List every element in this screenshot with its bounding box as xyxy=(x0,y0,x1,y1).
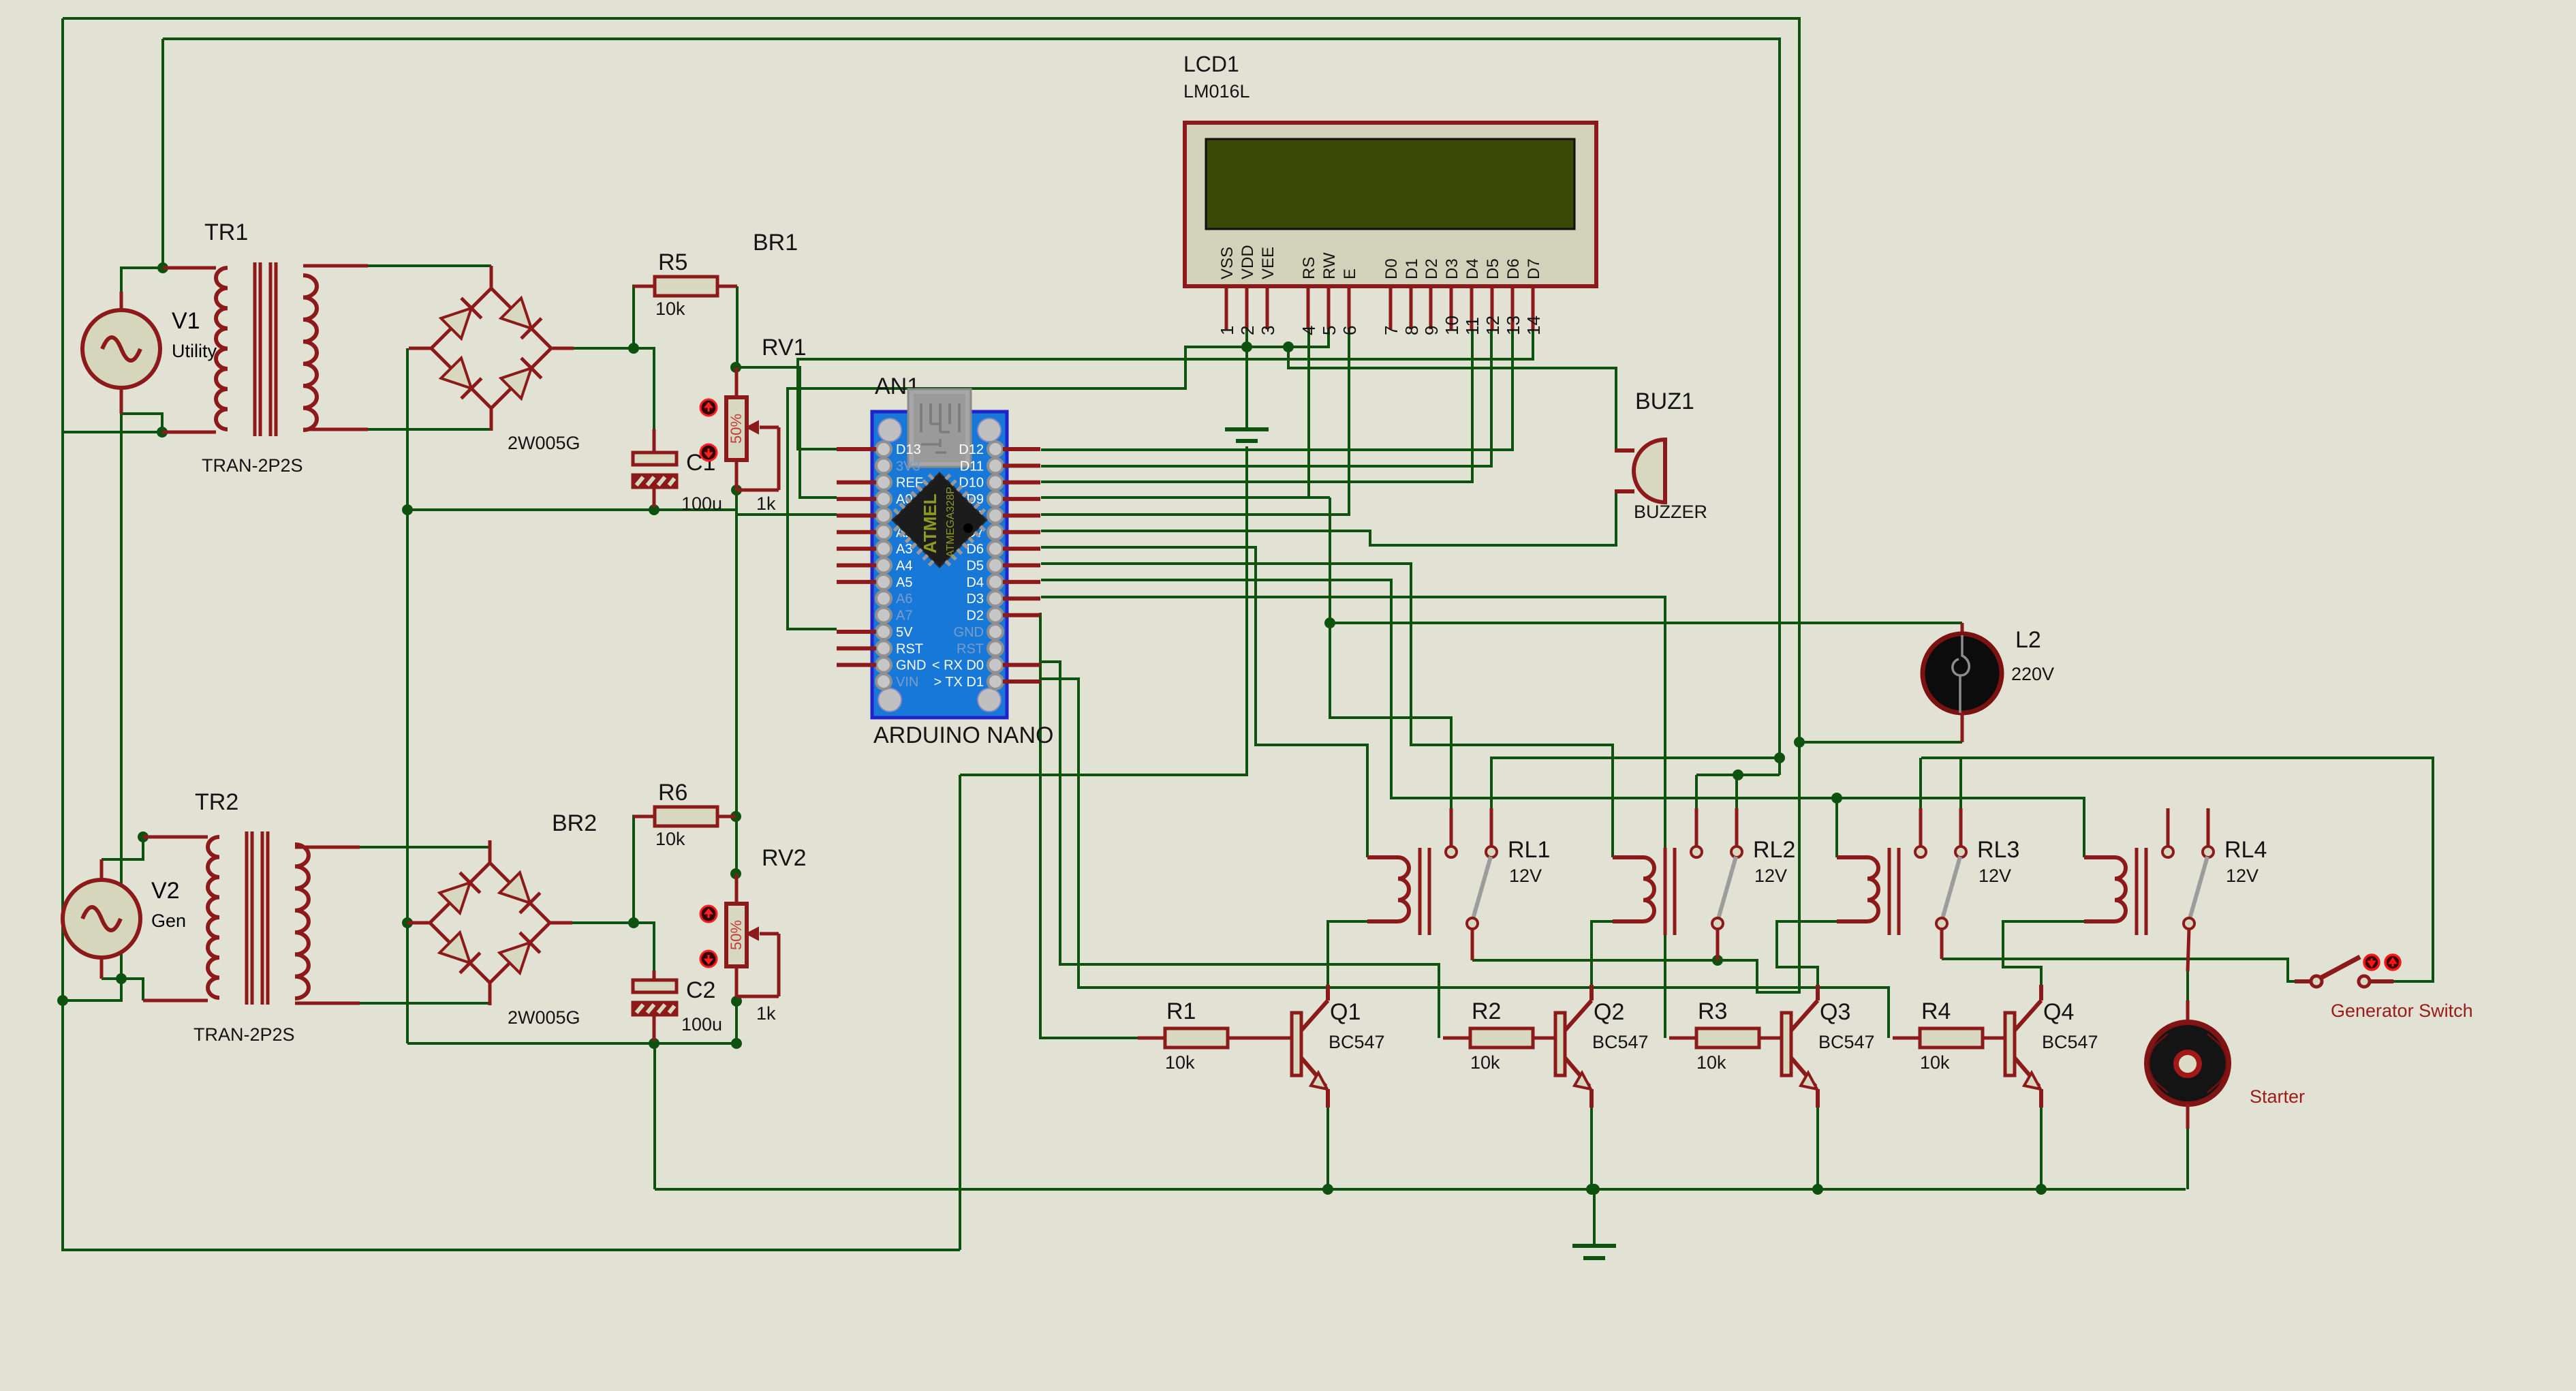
wire D4 to RL3 RL4 coils xyxy=(1041,580,2084,857)
bridge rectifier BR2 xyxy=(407,840,572,1005)
svg-text:10k: 10k xyxy=(1165,1052,1195,1073)
LCD pin 12 D5 xyxy=(1483,258,1503,335)
svg-text:E: E xyxy=(1341,269,1359,279)
pin wire xyxy=(1983,1037,2005,1040)
resistor R6 xyxy=(655,807,717,826)
svg-text:TRAN-2P2S: TRAN-2P2S xyxy=(202,455,303,476)
wire xyxy=(121,268,163,292)
wire lcd pin11 to D10 xyxy=(1041,329,1472,482)
svg-text:Starter: Starter xyxy=(2250,1086,2305,1107)
node emitter Q3 xyxy=(1812,1184,1823,1195)
svg-text:V1: V1 xyxy=(172,308,200,334)
wire xyxy=(1835,798,1838,857)
node I xyxy=(730,362,741,373)
wire xyxy=(1919,758,1922,808)
node Z xyxy=(1589,1184,1600,1195)
svg-text:D10: D10 xyxy=(959,476,984,491)
potentiometer RV1 xyxy=(700,367,779,490)
svg-text:BC547: BC547 xyxy=(1329,1032,1385,1052)
wire RL1 fixed xyxy=(1491,758,1780,808)
pin wire xyxy=(653,1015,656,1041)
wire xyxy=(736,490,837,515)
svg-text:1k: 1k xyxy=(756,493,776,514)
svg-text:D6: D6 xyxy=(966,542,984,557)
wire collector Q4 xyxy=(2003,921,2084,985)
svg-text:5: 5 xyxy=(1319,326,1339,335)
pin wire xyxy=(653,429,656,453)
wire vdd net xyxy=(788,329,1329,629)
transistor Q2 xyxy=(1555,985,1592,1107)
relay RL1 contacts xyxy=(1446,808,1497,929)
svg-text:A6: A6 xyxy=(896,592,912,607)
capacitor C1 xyxy=(633,453,677,487)
LCD pin 3 VEE xyxy=(1258,247,1278,335)
svg-text:D12: D12 xyxy=(959,442,984,457)
wire xyxy=(360,1002,490,1005)
svg-text:V2: V2 xyxy=(151,878,180,904)
svg-text:BUZZER: BUZZER xyxy=(1634,502,1707,522)
bus ground top xyxy=(407,508,736,511)
svg-text:1: 1 xyxy=(1217,326,1237,335)
svg-text:100u: 100u xyxy=(681,493,722,514)
AC source V2 wiring xyxy=(100,859,104,880)
relay RL2 contacts xyxy=(1691,808,1742,929)
wire xyxy=(163,39,1780,775)
svg-text:RL1: RL1 xyxy=(1508,837,1550,863)
lamp L2 xyxy=(1923,623,2002,742)
pin wire xyxy=(162,431,216,434)
pin wire xyxy=(1716,929,1720,960)
svg-text:Q3: Q3 xyxy=(1820,999,1850,1025)
resistor R1 xyxy=(1165,1028,1228,1048)
wire xyxy=(63,979,121,1000)
node U xyxy=(1324,617,1335,628)
pin wire xyxy=(717,285,737,288)
wire xyxy=(632,816,635,923)
svg-text:1k: 1k xyxy=(756,1003,776,1024)
wire D6 to RL1 coil xyxy=(1041,547,1367,857)
node B xyxy=(157,427,168,438)
wire lcd pin12 to D11 xyxy=(1041,329,1491,466)
wire xyxy=(653,1043,656,1189)
pin wire xyxy=(1940,929,1944,959)
node R xyxy=(1241,341,1252,352)
wire emitter xyxy=(1590,1107,1593,1189)
pin wire xyxy=(295,846,360,849)
AC source V1 xyxy=(82,292,217,406)
svg-text:RS: RS xyxy=(1300,257,1318,279)
wire xyxy=(736,286,739,367)
wire RX to R2 xyxy=(1041,662,1439,1038)
svg-text:D11: D11 xyxy=(960,459,984,474)
svg-text:RV1: RV1 xyxy=(762,335,807,361)
pin wire xyxy=(2188,929,2189,971)
node Q xyxy=(731,1038,742,1049)
svg-text:6: 6 xyxy=(1339,326,1360,335)
wire lcd pin13 to D12 xyxy=(1041,329,1512,450)
LCD pin 13 D6 xyxy=(1503,258,1523,335)
node emitter Q4 xyxy=(2036,1184,2047,1195)
svg-text:12V: 12V xyxy=(1754,866,1787,886)
pin wire xyxy=(143,999,208,1003)
svg-text:12: 12 xyxy=(1483,316,1503,335)
svg-text:Gen: Gen xyxy=(151,911,186,931)
wire xyxy=(121,414,162,432)
LCD pin 14 D7 xyxy=(1523,258,1544,335)
svg-text:C2: C2 xyxy=(686,977,715,1003)
pin wire xyxy=(2186,1104,2190,1129)
wire emitter xyxy=(1326,1107,1329,1189)
wire xyxy=(63,18,960,1250)
capacitor C2 xyxy=(633,980,677,1015)
wire xyxy=(736,367,837,498)
node emitter Q2 xyxy=(1586,1184,1597,1195)
svg-text:3: 3 xyxy=(1258,326,1278,335)
relay RL3 coil xyxy=(1837,848,1899,935)
svg-text:13: 13 xyxy=(1503,316,1523,335)
node H xyxy=(628,343,639,354)
svg-text:A5: A5 xyxy=(896,575,912,590)
svg-text:9: 9 xyxy=(1421,326,1442,335)
node M xyxy=(730,868,741,879)
pin wire xyxy=(653,487,656,507)
svg-text:Q2: Q2 xyxy=(1594,999,1624,1025)
wire lamp bottom xyxy=(1799,741,1962,744)
svg-text:50%: 50% xyxy=(728,414,745,444)
wire xyxy=(632,815,634,818)
svg-text:BR2: BR2 xyxy=(552,810,597,836)
resistor R5 xyxy=(655,277,717,296)
LCD pin 1 VSS xyxy=(1217,247,1237,335)
svg-text:D5: D5 xyxy=(966,559,984,574)
pin wire xyxy=(1759,1037,1782,1040)
node O xyxy=(649,1038,659,1049)
svg-text:ATMEL: ATMEL xyxy=(920,493,940,553)
LCD pin 11 D4 xyxy=(1462,258,1483,335)
node D xyxy=(57,995,68,1006)
svg-text:10k: 10k xyxy=(1470,1052,1500,1073)
transistor Q1 xyxy=(1292,985,1328,1107)
LCD pin 6 E xyxy=(1339,269,1360,335)
svg-text:RW: RW xyxy=(1320,252,1339,279)
node Y xyxy=(1712,955,1723,966)
pin wire xyxy=(717,815,736,819)
pin wire xyxy=(303,428,368,431)
wire xyxy=(368,428,491,431)
wire RL3 pole to switch xyxy=(1921,758,2433,981)
svg-text:10k: 10k xyxy=(655,829,685,849)
svg-text:10k: 10k xyxy=(1920,1052,1950,1073)
node emitter Q1 xyxy=(1322,1184,1333,1195)
Arduino pins xyxy=(837,442,1040,690)
wire lamp top xyxy=(1330,622,1962,624)
wire xyxy=(1735,775,1738,808)
svg-text:TRAN-2P2S: TRAN-2P2S xyxy=(193,1024,295,1045)
wire xyxy=(121,979,143,1000)
svg-text:R2: R2 xyxy=(1472,998,1501,1024)
transistor Q4 xyxy=(2005,985,2041,1107)
LCD pin 7 D0 xyxy=(1381,258,1401,335)
node E xyxy=(138,831,149,842)
pin wire xyxy=(1443,1037,1470,1040)
svg-text:RL4: RL4 xyxy=(2224,837,2267,863)
LCD LCD1 body xyxy=(1185,123,1596,286)
wire lcd pin6 to D8 xyxy=(1041,329,1349,515)
resistor R2 xyxy=(1470,1028,1533,1048)
wire xyxy=(634,348,654,429)
pin wire xyxy=(1533,1037,1555,1040)
wire xyxy=(1959,758,1962,808)
svg-text:A3: A3 xyxy=(896,542,912,557)
svg-text:RL2: RL2 xyxy=(1753,837,1795,863)
wire xyxy=(120,414,123,979)
svg-text:VEE: VEE xyxy=(1259,247,1277,279)
AC source V2 xyxy=(63,861,186,976)
wire RL3 bottom to switch xyxy=(1942,959,2310,981)
svg-text:R6: R6 xyxy=(658,780,687,806)
wire xyxy=(63,431,162,433)
svg-text:A4: A4 xyxy=(896,559,912,574)
Arduino USB connector xyxy=(908,389,971,467)
transformer TR1 xyxy=(216,262,317,436)
pin wire xyxy=(143,836,208,839)
node J xyxy=(649,504,659,515)
node P xyxy=(731,996,742,1007)
svg-text:GND: GND xyxy=(954,625,984,640)
wire xyxy=(632,285,634,288)
svg-text:D3: D3 xyxy=(966,592,984,607)
wire xyxy=(960,446,1247,775)
pin wire xyxy=(295,1002,360,1005)
generator switch xyxy=(2288,955,2400,987)
potentiometer RV2 xyxy=(700,874,779,996)
wire xyxy=(634,923,654,970)
svg-text:< RX D0: < RX D0 xyxy=(932,658,984,673)
svg-text:> TX D1: > TX D1 xyxy=(933,675,984,690)
wire collector Q3 xyxy=(1777,921,1837,985)
LCD pin 9 D2 xyxy=(1421,258,1442,335)
resistor R3 xyxy=(1696,1028,1759,1048)
svg-text:10k: 10k xyxy=(655,299,685,319)
bridge rectifier BR1 xyxy=(409,266,574,431)
svg-text:3V3: 3V3 xyxy=(896,459,920,474)
ground bottom center xyxy=(1572,1189,1616,1258)
wire ground rail xyxy=(655,1188,2186,1191)
wire xyxy=(735,490,738,874)
svg-text:GND: GND xyxy=(896,658,926,673)
pin wire xyxy=(632,285,655,288)
wire collector Q2 xyxy=(1592,921,1613,985)
wire TX to R4 xyxy=(1041,679,1889,1038)
AC source V1 wiring xyxy=(120,292,123,310)
starter motor xyxy=(2147,1022,2229,1104)
resistor R4 xyxy=(1920,1028,1983,1048)
svg-text:VSS: VSS xyxy=(1218,247,1237,279)
svg-text:10: 10 xyxy=(1442,316,1462,335)
wire xyxy=(959,775,961,1250)
node C xyxy=(116,973,127,984)
svg-text:BR1: BR1 xyxy=(753,230,798,256)
svg-text:11: 11 xyxy=(1462,317,1483,335)
svg-text:D4: D4 xyxy=(966,575,984,590)
relay RL3 contacts xyxy=(1915,808,1966,929)
svg-text:TR1: TR1 xyxy=(204,219,248,245)
svg-text:2W005G: 2W005G xyxy=(508,1007,580,1028)
svg-text:TR2: TR2 xyxy=(195,789,238,815)
Arduino mount holes xyxy=(878,418,1001,712)
svg-text:ATMEGA328P: ATMEGA328P xyxy=(945,487,957,557)
node A xyxy=(157,262,168,273)
wire lcd pin4 to D9 xyxy=(1041,329,1309,498)
wire collector Q1 xyxy=(1328,921,1367,985)
svg-text:D3: D3 xyxy=(1443,258,1461,279)
svg-text:7: 7 xyxy=(1381,326,1401,335)
svg-text:50%: 50% xyxy=(728,920,745,950)
svg-text:D1: D1 xyxy=(1403,258,1421,279)
pin wire xyxy=(632,815,655,819)
pin wire xyxy=(1471,929,1474,960)
svg-text:D5: D5 xyxy=(1484,258,1502,279)
svg-text:BC547: BC547 xyxy=(2042,1032,2098,1052)
svg-text:RV2: RV2 xyxy=(762,845,807,871)
wire xyxy=(1245,329,1248,429)
node T xyxy=(1831,793,1842,804)
wire RL2 contacts xyxy=(1696,774,1780,776)
wire D2 to R1 xyxy=(1040,613,1143,1038)
svg-text:D0: D0 xyxy=(1382,258,1401,279)
buzzer BUZ1 xyxy=(1615,440,1665,502)
pin wire xyxy=(163,266,216,270)
LCD pin 5 RW xyxy=(1319,252,1339,335)
pin wire xyxy=(2186,1000,2190,1022)
wire xyxy=(572,921,634,924)
wire D7 to buzzer xyxy=(1041,491,1616,545)
svg-text:R1: R1 xyxy=(1166,998,1196,1024)
wire xyxy=(161,39,164,268)
LCD pin 8 D1 xyxy=(1401,258,1422,335)
svg-text:RST: RST xyxy=(896,641,923,656)
svg-text:D6: D6 xyxy=(1504,258,1523,279)
wire emitter xyxy=(1816,1107,1819,1189)
svg-text:12V: 12V xyxy=(1509,866,1542,886)
svg-text:Generator Switch: Generator Switch xyxy=(2331,1000,2473,1021)
svg-text:220V: 220V xyxy=(2011,664,2054,684)
svg-text:8: 8 xyxy=(1401,326,1422,335)
node N xyxy=(628,917,639,928)
pin wire xyxy=(653,970,656,980)
bus ground bottom xyxy=(407,1042,736,1045)
wire xyxy=(360,846,490,849)
wire xyxy=(406,348,409,1043)
transistor Q3 xyxy=(1782,985,1818,1107)
svg-text:2: 2 xyxy=(1237,326,1258,335)
node F xyxy=(402,504,413,515)
node S xyxy=(1283,341,1294,352)
wire xyxy=(120,388,123,414)
svg-text:Q1: Q1 xyxy=(1330,999,1361,1025)
Arduino ATmega328P chip xyxy=(884,464,995,576)
relay RL2 coil xyxy=(1613,848,1675,935)
svg-text:RST: RST xyxy=(957,641,984,656)
node V xyxy=(1774,752,1785,763)
LCD pin 10 D3 xyxy=(1442,258,1462,335)
svg-text:A7: A7 xyxy=(896,609,912,624)
pin wire xyxy=(1228,1037,1292,1040)
svg-text:100u: 100u xyxy=(681,1014,722,1035)
svg-text:BC547: BC547 xyxy=(1818,1032,1875,1052)
svg-text:RL3: RL3 xyxy=(1977,837,2019,863)
svg-text:R4: R4 xyxy=(1921,998,1951,1024)
node K xyxy=(731,485,742,495)
svg-text:ARDUINO NANO: ARDUINO NANO xyxy=(873,722,1053,748)
relay RL1 coil xyxy=(1367,848,1429,935)
transformer TR2 xyxy=(208,831,309,1005)
pin wire xyxy=(1669,1037,1696,1040)
wire D3 to R3 xyxy=(1041,597,1665,1038)
LCD pin 2 VDD xyxy=(1237,245,1258,335)
node X xyxy=(1794,737,1805,748)
LCD pin 4 RS xyxy=(1299,257,1319,335)
wire D5 to RL2 coil xyxy=(1041,564,1613,857)
node G xyxy=(402,917,413,928)
pin wire xyxy=(303,264,368,268)
svg-text:Q4: Q4 xyxy=(2043,999,2074,1025)
pin wire xyxy=(1138,1037,1165,1040)
wire xyxy=(102,837,143,859)
relay RL4 contacts xyxy=(2162,808,2214,929)
svg-text:12V: 12V xyxy=(2226,866,2259,886)
wire lcd pin14 to D13 xyxy=(798,329,1533,449)
wire xyxy=(574,347,634,350)
svg-text:Utility: Utility xyxy=(172,341,217,361)
wire xyxy=(1695,775,1698,808)
svg-text:L2: L2 xyxy=(2015,627,2041,653)
wire xyxy=(632,286,635,348)
wire xyxy=(368,264,491,267)
svg-text:D7: D7 xyxy=(1525,258,1543,279)
svg-text:BUZ1: BUZ1 xyxy=(1635,388,1694,414)
svg-text:LCD1: LCD1 xyxy=(1183,52,1239,76)
wire xyxy=(63,18,1799,992)
Arduino Nano AN1 board xyxy=(872,412,1007,718)
svg-text:2W005G: 2W005G xyxy=(508,433,580,453)
svg-text:VIN: VIN xyxy=(896,675,918,690)
svg-text:VDD: VDD xyxy=(1239,245,1257,279)
svg-text:5V: 5V xyxy=(896,625,913,640)
wire buzzer top feed xyxy=(1288,347,1616,450)
wire emitter xyxy=(2040,1107,2043,1189)
svg-text:D2: D2 xyxy=(1423,258,1441,279)
svg-text:14: 14 xyxy=(1523,316,1544,335)
ground near LCD xyxy=(1225,347,1269,441)
wire xyxy=(102,977,121,980)
svg-text:12V: 12V xyxy=(1978,866,2011,886)
node W xyxy=(1733,769,1743,780)
svg-text:R3: R3 xyxy=(1698,998,1727,1024)
svg-text:10k: 10k xyxy=(1696,1052,1726,1073)
svg-text:D4: D4 xyxy=(1463,258,1482,279)
wire xyxy=(2186,1129,2189,1189)
wire xyxy=(735,1001,738,1043)
pin wire xyxy=(1893,1037,1920,1040)
wire xyxy=(1330,498,1451,808)
svg-text:R5: R5 xyxy=(658,249,687,275)
svg-text:D2: D2 xyxy=(966,609,984,624)
svg-text:D13: D13 xyxy=(896,442,921,457)
wire xyxy=(2186,971,2189,1000)
svg-text:4: 4 xyxy=(1299,326,1319,335)
svg-text:LM016L: LM016L xyxy=(1183,81,1250,102)
